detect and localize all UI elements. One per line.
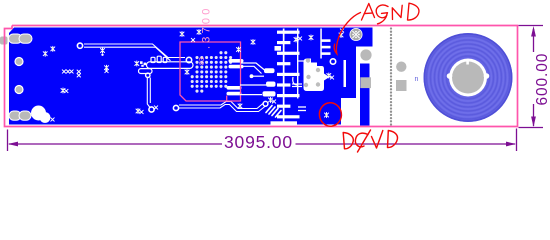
- test point marker 21: [136, 109, 140, 114]
- test point marker 19: [251, 40, 255, 45]
- pad P4: [173, 105, 178, 110]
- horizontal pair with dip: [179, 102, 266, 112]
- svg-text:600.00: 600.00: [534, 53, 550, 106]
- feeder traces to connector: [240, 63, 266, 95]
- copper pour (blue polygon): [9, 28, 373, 125]
- component outline (pink rect): [180, 42, 241, 101]
- white channel near right edge: [344, 60, 347, 87]
- test point marker 2: [51, 46, 55, 51]
- test point marker 25: [272, 100, 275, 103]
- thermal via (patterned circle): [350, 28, 363, 41]
- component blob with pads: [304, 59, 330, 92]
- vertical pair down: [147, 78, 150, 108]
- cap pad A: [264, 68, 275, 73]
- svg-text:n: n: [415, 76, 419, 83]
- test point marker 16: [197, 30, 201, 35]
- pad ring top of vertical pair: [146, 73, 150, 77]
- test point marker 20: [238, 104, 242, 109]
- via on feeder trace: [250, 74, 254, 78]
- small pad cluster left of bar: [140, 61, 146, 67]
- svg-text:3095.00: 3095.00: [224, 132, 293, 152]
- test point marker 1: [43, 51, 47, 56]
- red arrow to AGND via: [334, 13, 360, 54]
- test point marker 31: [339, 33, 343, 38]
- marker near keepout blob: [51, 118, 54, 121]
- dimension 3095.00: [8, 129, 517, 152]
- test point marker 6: [70, 70, 73, 73]
- dotted separation line: [390, 27, 392, 125]
- tag pad circle: [396, 61, 406, 71]
- pad P5: [263, 101, 268, 106]
- test point marker 9: [105, 65, 109, 70]
- tag pad square: [396, 80, 407, 91]
- IC footprint bar (outlined): [139, 56, 194, 73]
- test point marker 32: [340, 29, 343, 32]
- edge tab outside border: [0, 37, 8, 45]
- cap pad C: [263, 91, 276, 96]
- blob pad holes: [304, 58, 320, 87]
- test point marker 27: [298, 37, 301, 40]
- test point marker 22: [140, 110, 143, 113]
- pad P1: [77, 43, 82, 48]
- pad P6: [330, 59, 335, 64]
- test point marker 30: [330, 76, 333, 79]
- test point marker 24: [269, 98, 273, 103]
- hole left 2: [15, 86, 23, 94]
- dimension 600.00: [519, 26, 544, 128]
- test point marker 33: [325, 113, 329, 118]
- traces feeding component blob: [292, 61, 304, 87]
- red annotation DGND circle: [318, 101, 343, 127]
- white keepout blob bottom-left: [31, 106, 50, 123]
- mounting capsule top-left: [9, 34, 33, 43]
- svg-text:.3700: .3700: [201, 5, 213, 49]
- cap pads right of grid: [227, 59, 244, 95]
- pad P2 hook: [186, 57, 191, 62]
- crystal diagonal pads: [266, 106, 281, 118]
- test point marker 11: [61, 88, 65, 93]
- vertical divider trace: [320, 29, 322, 59]
- BGA dot grid: [191, 51, 233, 92]
- cap pad B: [266, 82, 276, 87]
- test point marker 7: [77, 70, 80, 73]
- connector column: [271, 29, 300, 125]
- test point marker 4: [62, 70, 65, 73]
- test point marker 5: [66, 70, 69, 73]
- hole left 1: [15, 58, 23, 66]
- mini ladder pads: [321, 39, 331, 55]
- board outline (pink): [5, 26, 518, 127]
- pad circle on edge: [358, 47, 374, 63]
- red annotation AGND: [362, 3, 419, 24]
- test point marker 12: [65, 89, 68, 92]
- test point marker 29: [327, 73, 331, 78]
- test point marker 26: [294, 37, 298, 42]
- test point marker 3: [101, 48, 105, 53]
- test point marker 14: [185, 70, 189, 75]
- test point marker 18: [237, 47, 241, 52]
- trace pair from pad P1: [84, 44, 185, 61]
- test point marker 10: [105, 69, 108, 72]
- test point marker 8: [77, 74, 80, 77]
- pad P3: [149, 107, 154, 112]
- mounting capsule bottom-left: [9, 111, 31, 120]
- test point marker 15: [180, 32, 184, 37]
- test point marker 23: [154, 106, 157, 109]
- stub traces right of connector: [298, 107, 306, 111]
- antenna coil: [424, 33, 513, 122]
- test point marker 28: [309, 35, 313, 40]
- red annotation DGND text: [343, 130, 397, 152]
- test point marker 17: [191, 38, 194, 41]
- blue bar under pad: [360, 64, 370, 126]
- svg-text:83: 83: [199, 57, 206, 65]
- gray square on edge: [360, 77, 371, 88]
- test point marker 13: [135, 61, 139, 66]
